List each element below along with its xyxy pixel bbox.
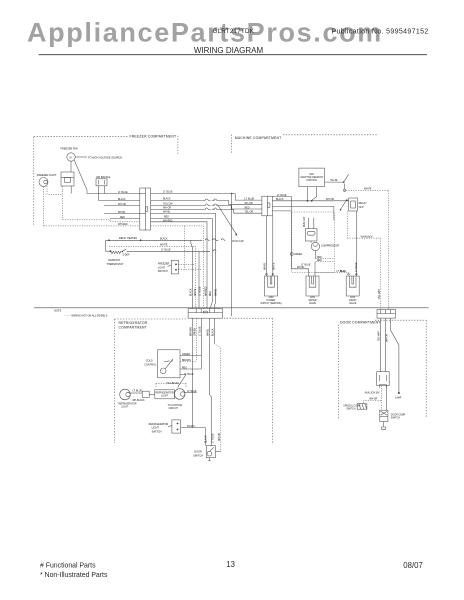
- wire ADC bottom left down: [306, 187, 308, 201]
- svg-text:LT. BLUE: LT. BLUE: [356, 262, 358, 272]
- svg-text:RED: RED: [182, 367, 187, 369]
- svg-text:SWITCH: SWITCH: [193, 454, 203, 457]
- svg-text:MULLION SW.: MULLION SW.: [365, 393, 380, 395]
- svg-text:CONTROL: CONTROL: [306, 180, 318, 182]
- wire fan block right-bottom to bus: [70, 186, 72, 194]
- freezer fan block inner: [65, 178, 71, 183]
- svg-text:YEL-WHT: YEL-WHT: [379, 288, 381, 299]
- wire w7 wh-red turns down: [151, 222, 207, 309]
- svg-text:GREEN: GREEN: [182, 354, 191, 356]
- wire w6 red turns down: [151, 219, 213, 309]
- door connector P4 bar: [377, 310, 396, 319]
- svg-text:WHITE: WHITE: [364, 189, 372, 191]
- ADC control box U1: [299, 168, 325, 187]
- svg-text:RED: RED: [210, 291, 212, 296]
- svg-text:LT. BLUE: LT. BLUE: [301, 264, 311, 266]
- svg-text:DOOR COMP.: DOOR COMP.: [391, 415, 406, 417]
- svg-text:WH-BL: WH-BL: [265, 262, 267, 270]
- refrigerator connector P2 bar: [188, 309, 222, 319]
- svg-text:WIRING DIAGRAM: WIRING DIAGRAM: [194, 46, 264, 55]
- machine compartment box left corner: [232, 135, 233, 153]
- svg-text:S-DEF: S-DEF: [123, 255, 130, 257]
- wire freezer light down dashed: [44, 187, 141, 226]
- relay switch contact: [341, 200, 347, 210]
- svg-text:BLK: BLK: [340, 271, 345, 273]
- wire fan down to fan block: [70, 161, 72, 172]
- bottom switch tail: [382, 422, 386, 430]
- svg-text:YEL-WHT: YEL-WHT: [379, 330, 381, 341]
- dashed riser from freezer light bus: [184, 226, 186, 270]
- plug C drain plug: [346, 274, 359, 297]
- svg-text:SPECIAL COMP.: SPECIAL COMP.: [343, 405, 361, 408]
- freezer connector P1: [140, 188, 151, 230]
- svg-text:REFRIGERATOR: REFRIGERATOR: [156, 392, 174, 395]
- svg-text:WH-BL: WH-BL: [216, 288, 218, 296]
- wires to plug A: [267, 216, 273, 276]
- svg-text:OLP: OLP: [359, 206, 364, 209]
- wire ADC right to defrost tstat: [325, 181, 344, 183]
- svg-text:COMPRESSOR: COMPRESSOR: [321, 245, 339, 248]
- wire black to connector: [99, 200, 141, 202]
- plug B compressor plug: [306, 276, 319, 296]
- svg-text:AppliancePartsPros.com: AppliancePartsPros.com: [27, 18, 383, 48]
- svg-text:LIGHT: LIGHT: [121, 406, 128, 408]
- svg-text:CONTROL: CONTROL: [144, 364, 157, 367]
- wire connector to module: [149, 394, 155, 396]
- lamp module rect: [155, 390, 175, 399]
- svg-text:FREEZER LIGHT: FREEZER LIGHT: [37, 174, 57, 177]
- ground green dot: [290, 253, 293, 256]
- svg-text:GLRT217TDK: GLRT217TDK: [213, 28, 255, 35]
- relay OLP component: [349, 198, 358, 211]
- svg-text:WH-BLACK: WH-BLACK: [361, 235, 374, 238]
- wires down to door switch: [205, 428, 207, 446]
- svg-text:FREEZER FAN: FREEZER FAN: [61, 147, 78, 150]
- wire w2 to machine connector (hops): [151, 199, 262, 205]
- wire lamp2 right: [185, 392, 197, 394]
- svg-text:ADAPTIVE DEFROST: ADAPTIVE DEFROST: [300, 176, 324, 179]
- wire bus machine y196.6: [272, 197, 291, 212]
- svg-text:DRAIN: DRAIN: [349, 299, 356, 302]
- svg-text:LIGHT: LIGHT: [152, 427, 160, 430]
- freezer compartment box right corner: [177, 136, 179, 154]
- svg-text:LT. BLUE: LT. BLUE: [213, 433, 215, 443]
- svg-text:WH-OR: WH-OR: [326, 199, 334, 201]
- svg-text:MACHINE COMPARTMENT: MACHINE COMPARTMENT: [235, 136, 282, 140]
- svg-text:RUN CAP: RUN CAP: [303, 216, 306, 227]
- wire bus machine y206.5: [272, 207, 334, 221]
- door compartment box left edge: [338, 325, 340, 420]
- svg-text:RED: RED: [245, 207, 250, 209]
- svg-text:DEFROST: DEFROST: [108, 259, 120, 262]
- wires below P4: [381, 318, 386, 372]
- wire lt blue to connector: [87, 193, 140, 195]
- cold control wires right: [180, 355, 201, 357]
- run capacitor C1 terminals: [309, 218, 314, 229]
- compressor motor: [311, 242, 319, 250]
- svg-text:115V: 115V: [350, 297, 356, 299]
- defrost bottom wire with bimetal: [106, 240, 111, 251]
- defrost switch contact: [123, 249, 130, 251]
- svg-text:ADC: ADC: [309, 173, 314, 176]
- defrost tstat contact: [344, 174, 349, 182]
- wire red to connector: [110, 218, 140, 220]
- svg-text:THERMOSTAT: THERMOSTAT: [106, 263, 123, 266]
- wire w4 to machine (hops): [151, 208, 262, 213]
- wire door switch to dash-dot riser: [216, 451, 221, 453]
- run capacitor C1 body: [305, 229, 317, 241]
- machine connector P3: [262, 196, 273, 216]
- wire w5 wh-bl turns down: [151, 214, 216, 309]
- door compartment box right edge: [425, 320, 427, 417]
- special compartment relay: [357, 404, 367, 410]
- svg-text:WH-OR: WH-OR: [219, 433, 221, 441]
- svg-text:BLACK: BLACK: [187, 425, 195, 428]
- door switch tail: [208, 458, 211, 461]
- door compartment box top edge: [375, 319, 426, 321]
- wires air baffle down: [99, 186, 105, 201]
- header rule: [39, 54, 427, 56]
- refrigerator light switch: [172, 420, 181, 433]
- svg-text:BLACK: BLACK: [211, 328, 214, 336]
- svg-text:COLD: COLD: [146, 360, 153, 363]
- wire bus machine y200.8 to relay: [272, 200, 348, 202]
- defrost mid wire dashed: [109, 246, 196, 308]
- svg-text:WH-RED: WH-RED: [118, 224, 128, 226]
- svg-text:AIR BAFFLE: AIR BAFFLE: [96, 176, 111, 179]
- svg-text:FREEZER COMPARTMENT: FREEZER COMPARTMENT: [130, 134, 177, 138]
- wire w3 to machine (hops): [151, 204, 262, 209]
- wire lamp leader: [391, 318, 399, 392]
- svg-text:SWITCH: SWITCH: [346, 409, 355, 411]
- svg-text:VALVE: VALVE: [349, 302, 357, 305]
- svg-text:TO HIGH VOLTAGE SOURCE: TO HIGH VOLTAGE SOURCE: [88, 157, 122, 160]
- cabinet base line: [34, 307, 429, 309]
- refrigerator lamp 1: [120, 389, 131, 400]
- svg-text:115V: 115V: [268, 297, 274, 299]
- air baffle component: [96, 179, 107, 186]
- svg-text:- - - - - WIRING NOT ON ALL M: - - - - - WIRING NOT ON ALL MODELS: [64, 315, 108, 318]
- svg-text:BROWN: BROWN: [191, 327, 193, 336]
- svg-text:LT. BLUE: LT. BLUE: [200, 286, 202, 296]
- svg-text:DOOR: DOOR: [194, 451, 202, 454]
- svg-text:LT. BLUE: LT. BLUE: [132, 391, 142, 393]
- svg-text:RUN CAP.: RUN CAP.: [232, 240, 244, 243]
- refrigerator compartment box right edge: [271, 318, 273, 444]
- wire lamp1 to connector: [130, 392, 142, 394]
- svg-text:BROWN: BROWN: [182, 360, 191, 362]
- svg-text:WH-OR: WH-OR: [245, 203, 253, 205]
- svg-text:CIRCUIT: CIRCUIT: [169, 408, 179, 410]
- svg-text:LAMP: LAMP: [395, 396, 402, 399]
- freezer light switch: [171, 260, 178, 274]
- svg-text:* Non-Illustrated Parts: * Non-Illustrated Parts: [40, 572, 108, 579]
- svg-text:RELAY: RELAY: [359, 202, 367, 205]
- freezer fan motor M1: [67, 153, 75, 161]
- svg-text:LT. BLUE: LT. BLUE: [161, 249, 171, 251]
- refrigerator compartment box left edge: [114, 319, 116, 443]
- wires below P2 connector: [193, 318, 215, 427]
- door switch box (door comp): [377, 372, 390, 386]
- svg-text:SUPPLY (SERVICE): SUPPLY (SERVICE): [260, 303, 281, 305]
- refrigerator lamp 2: [174, 389, 185, 400]
- door bottom switch: [380, 410, 388, 421]
- wire lamp feed: [178, 375, 187, 388]
- defrost bimetal coil: [111, 251, 121, 253]
- wire fan diagonal to bus: [74, 160, 87, 194]
- svg-text:REFRIGERATOR: REFRIGERATOR: [149, 423, 169, 426]
- wire wh-bl to connector: [104, 213, 140, 215]
- svg-text:BLACK: BLACK: [163, 198, 171, 201]
- freezer light lamp: [39, 178, 48, 187]
- svg-text:WHITE: WHITE: [160, 244, 168, 246]
- svg-text:# Functional Parts: # Functional Parts: [40, 563, 96, 570]
- wires down from door switch box: [381, 386, 383, 411]
- svg-text:M: M: [70, 157, 72, 159]
- svg-text:REFRIGERATOR: REFRIGERATOR: [119, 321, 148, 325]
- svg-text:YEL-OR: YEL-OR: [245, 212, 254, 214]
- wire bus machine y210.9: [272, 210, 291, 212]
- wire cap to compressor: [311, 241, 315, 259]
- svg-text:DEFR. HEATER: DEFR. HEATER: [119, 237, 137, 240]
- wire w1 lt blue long: [151, 194, 262, 201]
- svg-text:POWER: POWER: [267, 300, 276, 302]
- wire wh-red dashed to connector (from fan block): [110, 221, 140, 223]
- svg-text:VALVE: VALVE: [309, 302, 317, 305]
- wire right riser to plug C dashed: [315, 273, 349, 274]
- svg-text:TO LIGHTING: TO LIGHTING: [168, 405, 183, 407]
- wire special comp to switch: [363, 401, 381, 404]
- svg-text:13: 13: [226, 560, 235, 569]
- dashed red wires in cluster: [315, 259, 334, 262]
- run cap label callout: [218, 205, 237, 236]
- freezer compartment box top edge: [34, 136, 128, 138]
- svg-text:DOOR COMPARTMENT: DOOR COMPARTMENT: [340, 320, 381, 324]
- wire white dashed to door: [345, 190, 389, 309]
- svg-text:LT. BLUE: LT. BLUE: [245, 198, 255, 200]
- svg-text:WH-BLACK: WH-BLACK: [132, 399, 145, 402]
- svg-text:WHITE: WHITE: [274, 262, 276, 270]
- wire wh-or to connector: [104, 205, 140, 207]
- svg-text:SWITCH: SWITCH: [391, 418, 400, 420]
- wire w1 branch down to refrigerator: [231, 194, 233, 317]
- svg-text:YEL-BL: YEL-BL: [330, 180, 339, 182]
- svg-text:BLACK: BLACK: [205, 435, 208, 443]
- freezer compartment box left edge: [33, 137, 35, 226]
- cold control box: [158, 350, 180, 378]
- svg-text:115V: 115V: [310, 297, 316, 299]
- dashed light to block: [47, 186, 63, 194]
- svg-text:SWITCH: SWITCH: [152, 430, 162, 433]
- svg-text:(YEL-BLUE): (YEL-BLUE): [166, 383, 179, 385]
- svg-text:WHITE: WHITE: [195, 288, 197, 296]
- svg-text:COMPARTMENT: COMPARTMENT: [119, 326, 147, 330]
- wire light switch to riser: [181, 427, 206, 429]
- svg-text:BLACK: BLACK: [276, 198, 284, 201]
- svg-text:LT. BLUE: LT. BLUE: [199, 326, 201, 336]
- svg-text:Publication No. 5995497152: Publication No. 5995497152: [332, 29, 429, 36]
- svg-text:REFRIGERATOR: REFRIGERATOR: [118, 402, 136, 405]
- svg-text:WATER: WATER: [308, 299, 316, 302]
- svg-text:WH-BL: WH-BL: [207, 328, 209, 336]
- wire compressor down to plug B: [314, 262, 316, 276]
- wire defrost to bundle: [130, 250, 216, 309]
- wire relay to plug C: [355, 211, 357, 276]
- wire fan block bottom dashed: [63, 186, 111, 220]
- svg-text:LIGHT: LIGHT: [158, 266, 166, 269]
- svg-text:GREEN: GREEN: [294, 254, 303, 256]
- svg-text:BLACK: BLACK: [190, 288, 193, 296]
- relay dashed down: [347, 211, 381, 309]
- svg-text:NOTE: NOTE: [54, 310, 61, 313]
- wire ADC bottom right down: [311, 187, 317, 201]
- svg-text:GREEN: GREEN: [195, 327, 197, 336]
- freezer light switch wires dashed: [178, 264, 201, 269]
- door switch (fridge): [206, 446, 215, 458]
- svg-text:RED: RED: [317, 257, 322, 259]
- svg-text:FREEZER: FREEZER: [158, 263, 170, 266]
- dashed lamp enclosure: [156, 383, 186, 388]
- svg-text:WH-OR: WH-OR: [369, 399, 377, 401]
- wire fan to high voltage note: [75, 156, 87, 158]
- svg-text:LT. BLUE: LT. BLUE: [163, 192, 173, 194]
- machine compartment box top edge: [283, 134, 377, 136]
- defrost heater top wire (hops): [106, 239, 226, 309]
- lamp connector small rect: [142, 391, 149, 397]
- compressor cluster dashed enclosure: [292, 212, 335, 272]
- freezer fan block: [61, 172, 74, 186]
- svg-text:SWITCH: SWITCH: [158, 270, 168, 273]
- svg-text:LT. BLUE: LT. BLUE: [187, 391, 197, 393]
- wire left riser to plugB: [291, 212, 308, 276]
- P2 ticks: [196, 309, 214, 313]
- svg-text:BLACK: BLACK: [160, 238, 168, 241]
- svg-text:WH-RED: WH-RED: [206, 286, 208, 296]
- dash-dot wire to door switch: [214, 344, 220, 452]
- svg-text:08/07: 08/07: [403, 561, 423, 570]
- svg-text:WH-OR: WH-OR: [386, 334, 388, 342]
- svg-text:RED: RED: [317, 260, 322, 262]
- svg-text:LIGHT: LIGHT: [161, 396, 168, 398]
- wire w8 dashed turns down: [151, 226, 204, 309]
- plug A power supply: [265, 274, 278, 297]
- refrigerator compartment box top edge: [115, 317, 273, 320]
- svg-text:WH-BL: WH-BL: [297, 267, 305, 269]
